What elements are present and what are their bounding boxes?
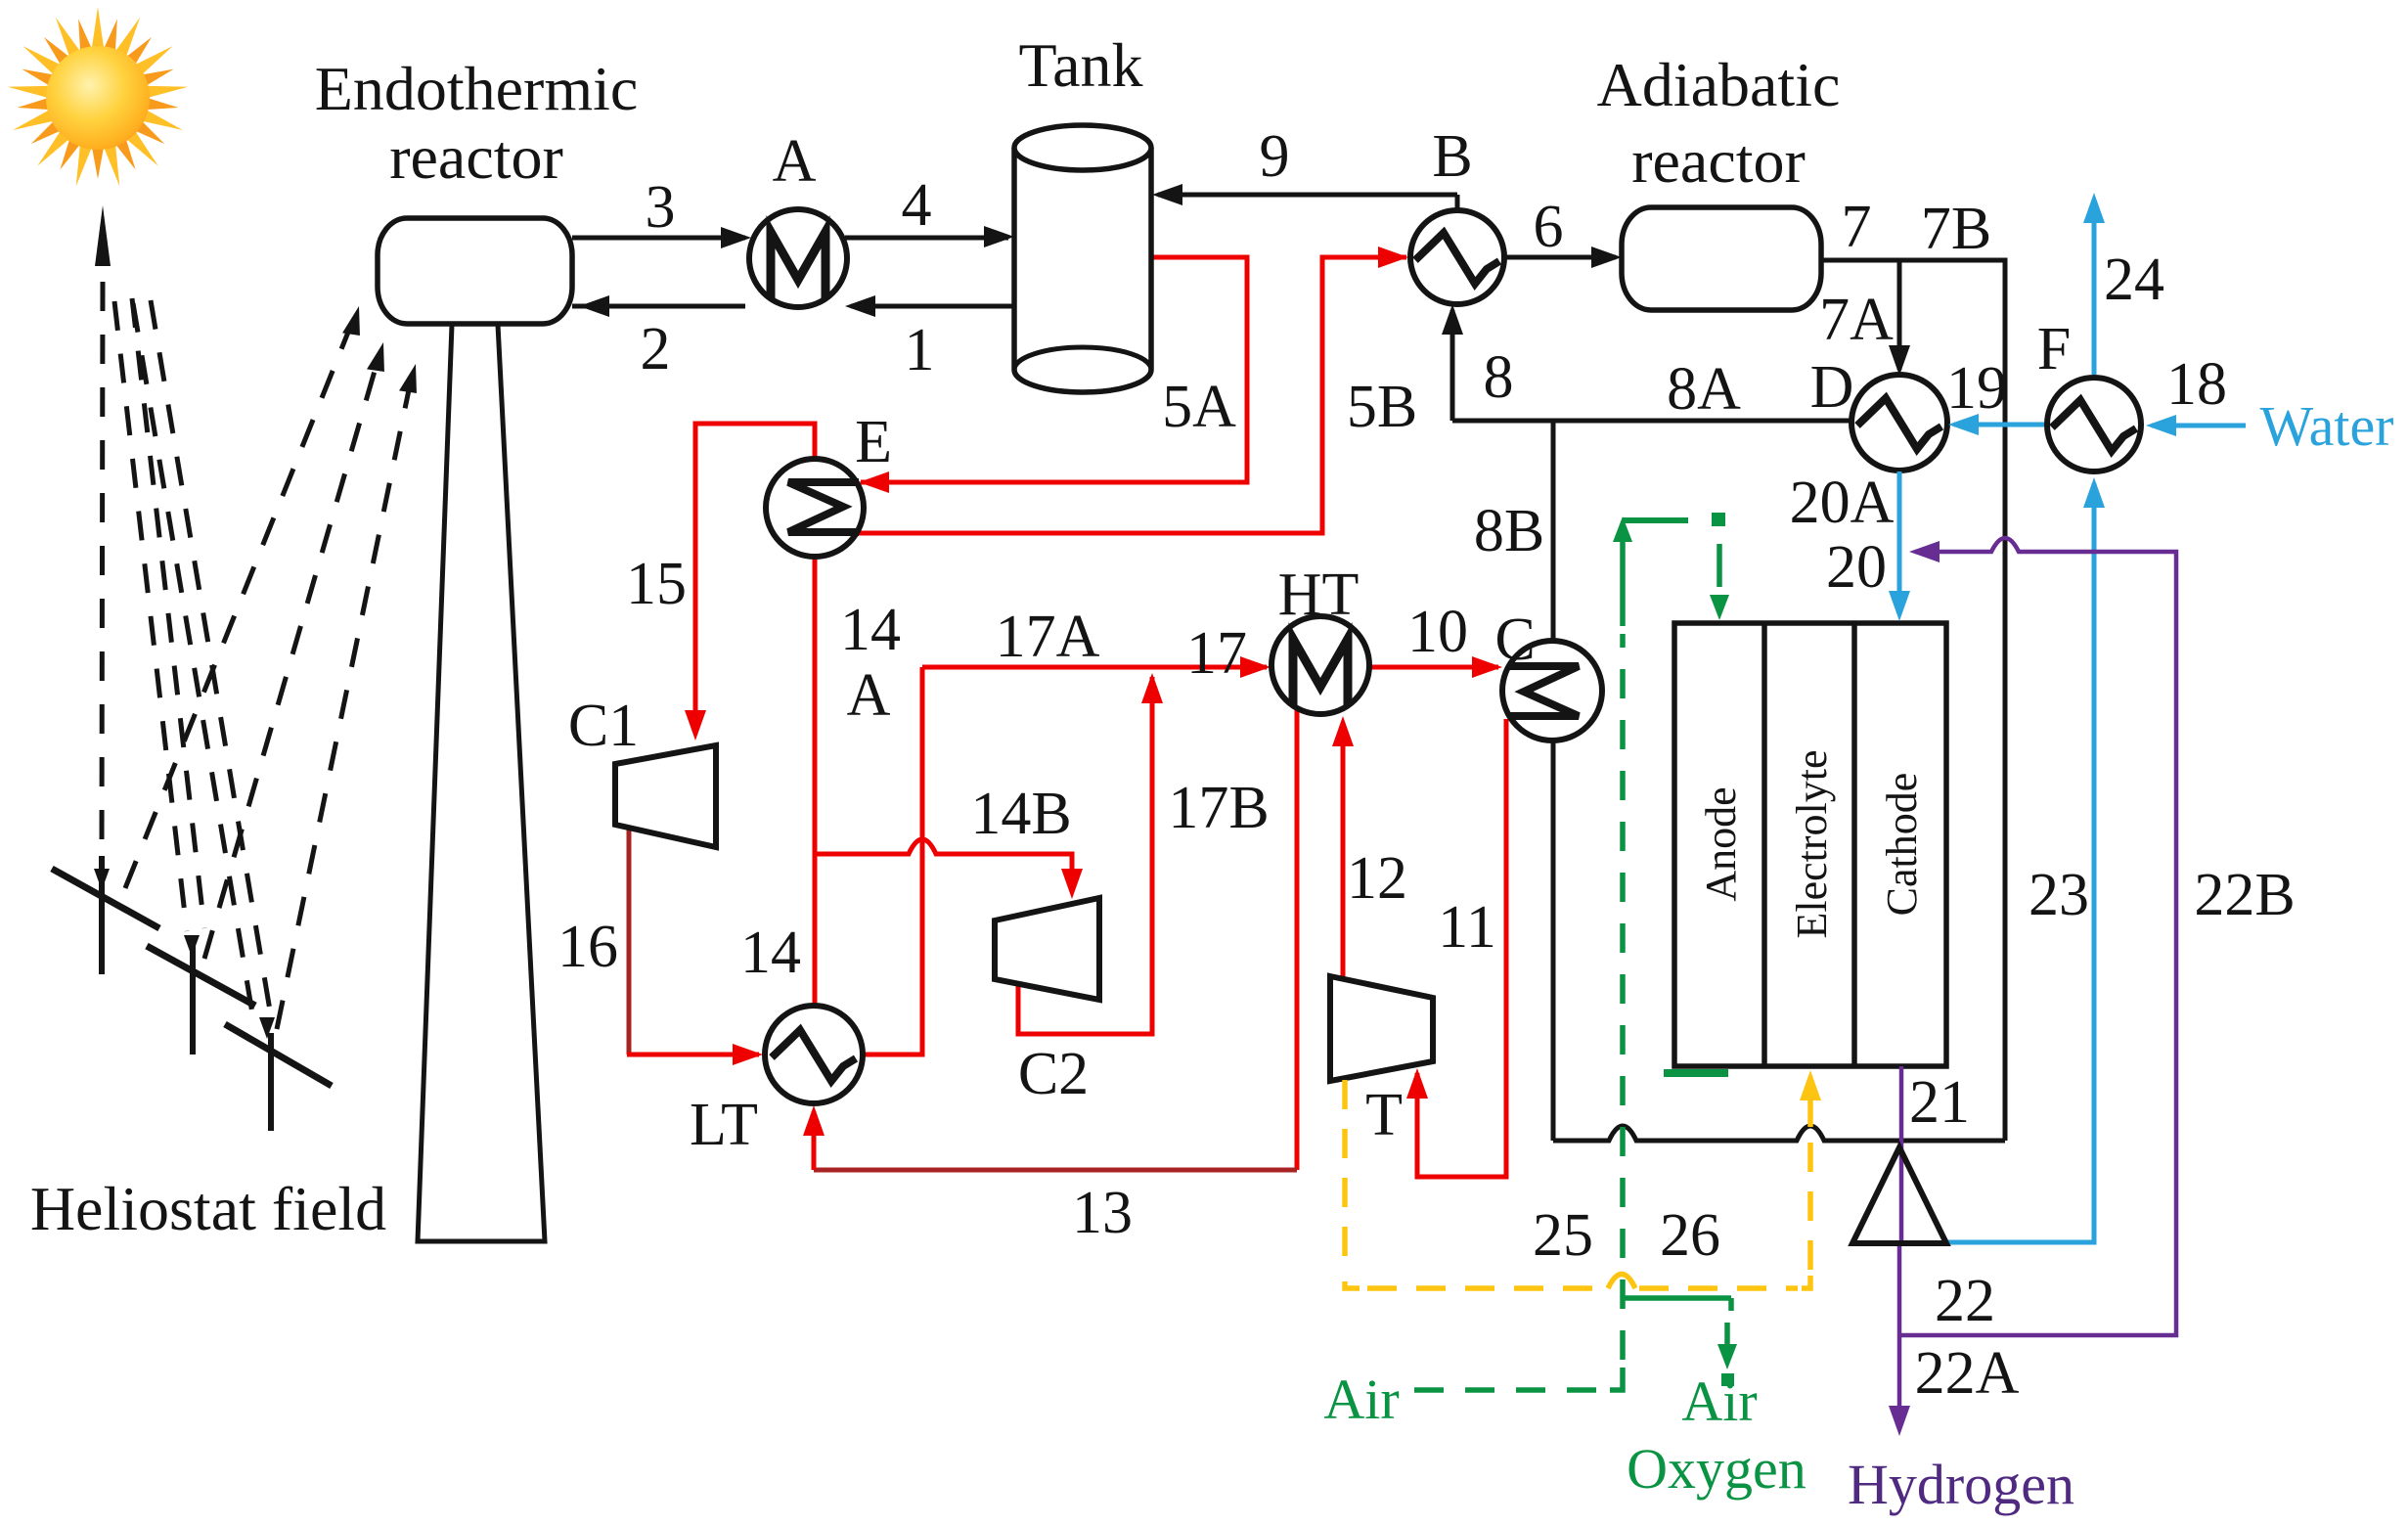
svg-text:7A: 7A — [1819, 287, 1894, 353]
svg-text:21: 21 — [1909, 1069, 1970, 1136]
svg-text:10: 10 — [1407, 599, 1468, 665]
svg-text:HT: HT — [1278, 561, 1360, 628]
svg-text:6: 6 — [1534, 194, 1564, 260]
svg-text:Endothermic: Endothermic — [315, 54, 639, 123]
svg-text:13: 13 — [1072, 1180, 1133, 1246]
svg-text:4: 4 — [902, 172, 932, 239]
svg-text:19: 19 — [1946, 355, 2007, 422]
svg-text:B: B — [1432, 123, 1472, 190]
svg-text:23: 23 — [2029, 862, 2089, 928]
svg-text:5A: 5A — [1162, 374, 1236, 440]
svg-text:7B: 7B — [1921, 196, 1991, 262]
svg-text:8B: 8B — [1474, 498, 1544, 564]
svg-text:T: T — [1365, 1082, 1403, 1148]
svg-text:C: C — [1494, 606, 1535, 673]
svg-text:Oxygen: Oxygen — [1627, 1437, 1806, 1501]
svg-text:14B: 14B — [970, 781, 1071, 847]
svg-text:Air: Air — [1681, 1369, 1757, 1433]
svg-text:2: 2 — [641, 316, 671, 382]
svg-text:24: 24 — [2104, 247, 2164, 313]
svg-text:7: 7 — [1842, 194, 1872, 260]
svg-text:Adiabatic: Adiabatic — [1597, 50, 1841, 119]
svg-text:A: A — [847, 662, 891, 729]
svg-text:11: 11 — [1438, 894, 1496, 961]
svg-text:Anode: Anode — [1697, 786, 1745, 901]
svg-text:D: D — [1810, 354, 1854, 421]
svg-text:Air: Air — [1323, 1368, 1399, 1431]
svg-text:Cathode: Cathode — [1878, 773, 1926, 917]
svg-text:8A: 8A — [1667, 356, 1741, 423]
svg-text:17: 17 — [1186, 620, 1247, 687]
svg-text:A: A — [773, 128, 817, 195]
svg-text:17A: 17A — [996, 604, 1100, 670]
svg-text:22B: 22B — [2194, 862, 2295, 928]
svg-text:25: 25 — [1533, 1202, 1593, 1269]
svg-text:20: 20 — [1826, 534, 1887, 601]
svg-text:8: 8 — [1484, 344, 1514, 411]
svg-text:9: 9 — [1260, 123, 1290, 190]
svg-text:reactor: reactor — [389, 122, 563, 192]
svg-text:22: 22 — [1935, 1268, 1995, 1334]
svg-text:Water: Water — [2259, 394, 2393, 458]
svg-text:F: F — [2037, 316, 2071, 382]
svg-text:E: E — [855, 409, 892, 475]
svg-text:3: 3 — [646, 174, 676, 241]
svg-text:5B: 5B — [1347, 374, 1417, 440]
svg-text:15: 15 — [626, 551, 687, 617]
svg-text:12: 12 — [1347, 845, 1407, 912]
svg-text:14: 14 — [740, 920, 801, 986]
svg-text:Hydrogen: Hydrogen — [1848, 1453, 2074, 1516]
svg-text:Heliostat field: Heliostat field — [30, 1174, 386, 1243]
svg-text:C2: C2 — [1018, 1041, 1089, 1107]
svg-text:Tank: Tank — [1018, 30, 1142, 100]
svg-text:18: 18 — [2166, 351, 2227, 418]
svg-text:20A: 20A — [1790, 470, 1895, 536]
svg-text:26: 26 — [1660, 1202, 1720, 1269]
svg-text:C1: C1 — [568, 693, 639, 759]
svg-text:Electrolyte: Electrolyte — [1788, 749, 1836, 938]
svg-text:17B: 17B — [1168, 775, 1269, 841]
svg-text:LT: LT — [690, 1092, 758, 1158]
svg-text:reactor: reactor — [1631, 126, 1806, 196]
svg-text:16: 16 — [557, 914, 618, 980]
svg-text:1: 1 — [905, 317, 935, 383]
svg-text:22A: 22A — [1915, 1340, 2020, 1407]
svg-text:14: 14 — [840, 597, 901, 663]
